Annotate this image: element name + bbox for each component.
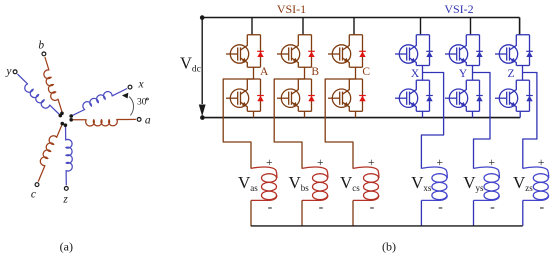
label Vcs xyxy=(340,173,360,193)
svg-text:Vbs: Vbs xyxy=(289,173,310,193)
svg-text:+: + xyxy=(317,157,324,169)
wire top rail drop leg X xyxy=(420,18,422,35)
svg-text:+: + xyxy=(489,157,496,169)
label VSI-1 xyxy=(277,2,306,16)
svg-text:Z: Z xyxy=(507,68,514,80)
terminal label x xyxy=(137,79,144,91)
label Vbs xyxy=(289,173,310,193)
label 30 degrees xyxy=(137,97,148,107)
label − phase a xyxy=(268,200,273,215)
svg-text:b: b xyxy=(38,40,44,52)
wire mid link leg Y xyxy=(472,66,474,81)
wire mid link leg B xyxy=(304,67,306,79)
wire phase Z output to load xyxy=(523,73,537,169)
label Y xyxy=(459,68,468,80)
wire mid link leg Z xyxy=(522,66,524,81)
top DC rail (positive bus) xyxy=(202,18,519,35)
winding c with terminal xyxy=(35,124,62,187)
wire top rail drop leg B xyxy=(302,18,304,35)
svg-text:-: - xyxy=(268,200,273,215)
svg-text:Vys: Vys xyxy=(463,173,484,193)
inductor Vas winding xyxy=(251,167,277,226)
wire top rail drop leg C xyxy=(353,18,355,35)
wire lower switch to negative rail leg X xyxy=(422,111,424,117)
label Z xyxy=(507,68,514,80)
label + phase y xyxy=(489,157,496,169)
svg-text:-: - xyxy=(438,200,443,215)
svg-text:VSI-1: VSI-1 xyxy=(277,2,306,16)
winding y with terminal xyxy=(13,70,60,116)
svg-text:+: + xyxy=(368,157,375,169)
svg-text:30: 30 xyxy=(137,97,147,107)
junction dot bottom-left of DC bus xyxy=(200,115,205,120)
winding x with terminal xyxy=(71,85,132,116)
inductor Vys winding xyxy=(474,167,500,226)
label − phase y xyxy=(490,200,495,215)
IGBT lower switch leg X xyxy=(395,80,433,111)
wire phase B output to load xyxy=(274,79,304,169)
svg-text:c: c xyxy=(31,189,36,201)
svg-text:-: - xyxy=(539,200,544,215)
label − phase x xyxy=(438,200,443,215)
neutral return line (b) xyxy=(251,225,523,227)
inductor Vbs winding xyxy=(302,167,328,226)
label − phase c xyxy=(370,200,375,215)
winding z with terminal xyxy=(64,125,72,190)
label − phase z xyxy=(539,200,544,215)
label C xyxy=(362,66,370,78)
svg-text:(b): (b) xyxy=(382,240,396,254)
IGBT lower switch leg Z xyxy=(495,80,533,111)
label X xyxy=(411,68,420,80)
caption (a) xyxy=(60,240,73,254)
svg-text:Y: Y xyxy=(459,68,468,80)
svg-text:-: - xyxy=(319,200,324,215)
Vdc source line with arrow xyxy=(199,20,206,117)
svg-text:x: x xyxy=(137,79,144,91)
svg-text:Vcs: Vcs xyxy=(340,173,360,193)
label + phase z xyxy=(538,157,545,169)
terminal label y xyxy=(5,65,12,77)
IGBT upper switch leg C xyxy=(328,35,366,68)
IGBT upper switch leg B xyxy=(277,35,315,68)
label − phase b xyxy=(319,200,324,215)
svg-text:Vdc: Vdc xyxy=(180,53,201,74)
inductor Vcs winding xyxy=(353,167,379,226)
wire top rail drop leg Y xyxy=(470,18,472,35)
IGBT upper switch leg Z xyxy=(495,35,533,66)
svg-text:y: y xyxy=(5,65,12,77)
svg-text:X: X xyxy=(411,68,420,80)
wire phase X output to load xyxy=(421,73,443,169)
wire lower switch to negative rail leg Y xyxy=(472,111,474,117)
label + phase b xyxy=(317,157,324,169)
svg-text:Vas: Vas xyxy=(238,173,258,193)
svg-text:-: - xyxy=(370,200,375,215)
IGBT upper switch leg A xyxy=(226,35,264,68)
svg-text:z: z xyxy=(62,193,68,205)
bottom DC rail (negative bus) xyxy=(202,117,520,119)
svg-text:+: + xyxy=(538,157,545,169)
inductor Vzs winding xyxy=(523,167,549,226)
wire mid link leg X xyxy=(422,66,424,81)
winding b with terminal xyxy=(42,52,63,114)
star point junction dots xyxy=(59,112,73,127)
label + phase c xyxy=(368,157,375,169)
terminal label b xyxy=(38,40,44,52)
label + phase a xyxy=(266,157,273,169)
winding a with terminal xyxy=(71,118,141,127)
label VSI-2 xyxy=(444,2,473,16)
terminal label a xyxy=(145,115,151,127)
wire phase C output to load xyxy=(325,79,355,169)
wire mid link leg C xyxy=(355,67,357,79)
svg-text:Vzs: Vzs xyxy=(513,173,533,193)
svg-text:C: C xyxy=(362,66,370,78)
30 degree arc arrow xyxy=(122,93,134,116)
IGBT lower switch leg Y xyxy=(445,80,483,111)
wire lower switch to negative rail leg A xyxy=(253,111,255,117)
svg-text:Vxs: Vxs xyxy=(411,173,432,193)
terminal label c xyxy=(31,189,36,201)
IGBT lower switch leg B xyxy=(277,79,315,111)
label A xyxy=(260,66,269,78)
svg-text:VSI-2: VSI-2 xyxy=(444,2,473,16)
IGBT upper switch leg Y xyxy=(445,35,483,66)
caption (b) xyxy=(382,240,396,254)
IGBT lower switch leg C xyxy=(328,79,366,111)
terminal label z xyxy=(62,193,68,205)
wire lower switch to negative rail leg Z xyxy=(519,111,521,117)
svg-text:(a): (a) xyxy=(60,240,73,254)
wire phase A output to load xyxy=(223,79,253,169)
IGBT lower switch leg A xyxy=(226,79,264,111)
wire lower switch to negative rail leg B xyxy=(304,111,306,117)
svg-text:a: a xyxy=(145,115,151,127)
label Vas xyxy=(238,173,258,193)
svg-text:+: + xyxy=(436,157,443,169)
wire top rail drop leg A xyxy=(251,18,253,35)
svg-text:B: B xyxy=(311,66,319,78)
inductor Vxs winding xyxy=(421,167,447,226)
IGBT upper switch leg X xyxy=(395,35,433,66)
wire lower switch to negative rail leg C xyxy=(355,111,357,117)
svg-text:+: + xyxy=(266,157,273,169)
label + phase x xyxy=(436,157,443,169)
svg-text:-: - xyxy=(490,200,495,215)
label B xyxy=(311,66,319,78)
label Vzs xyxy=(513,173,533,193)
label Vdc xyxy=(180,53,201,74)
junction dot top-left of DC bus xyxy=(200,15,205,20)
label Vxs xyxy=(411,173,432,193)
label Vys xyxy=(463,173,484,193)
svg-text:A: A xyxy=(260,66,269,78)
wire phase Y output to load xyxy=(473,73,491,169)
wire mid link leg A xyxy=(253,67,255,79)
